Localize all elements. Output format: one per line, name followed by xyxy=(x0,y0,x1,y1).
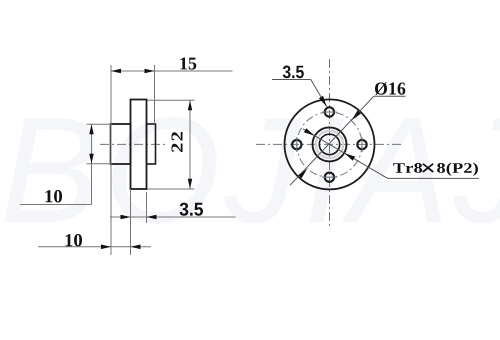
Ø16 arrow upper (outside bolt circle pointing inward) xyxy=(352,110,361,120)
text 3.5 (circle view) xyxy=(283,66,304,79)
bolt hole top xyxy=(325,107,334,116)
hole tick top xyxy=(322,111,337,113)
bolt hole right xyxy=(357,140,366,149)
center thread shading ring xyxy=(316,131,343,158)
arrow 3.5 right (outside pointing left) xyxy=(147,215,157,220)
Ø16 label underline xyxy=(374,95,406,97)
Tr8x8 leader diagonal xyxy=(303,129,388,179)
outer circle Ø22 xyxy=(285,99,375,189)
bolt circle Ø16 (dash-dot) xyxy=(297,112,362,177)
dimension line 22 xyxy=(189,100,191,189)
text 10 (left) xyxy=(46,190,63,203)
arrow 10 down xyxy=(89,154,93,164)
vertical centerline xyxy=(329,59,331,228)
extension line left (x=111, shared 15/10) xyxy=(110,65,112,255)
hole tick bottom xyxy=(322,176,337,178)
arrow bottom10 right (outside, pointing left) xyxy=(131,245,141,250)
arrow 3.5 left (outside pointing right) xyxy=(121,215,131,220)
hole tick right xyxy=(361,137,363,152)
3.5 leader (top hole) xyxy=(272,79,311,81)
3.5 leader arrow xyxy=(319,96,327,107)
hole tick left xyxy=(296,137,298,152)
extension lines for 22 xyxy=(148,99,195,101)
text 3.5 (left view) xyxy=(180,203,203,216)
extension line for bottom 10 (x=130.5) xyxy=(130,189,132,255)
Tr8x8 arrow SE (pointing NW onto thread circle) xyxy=(344,153,355,161)
text Ø16 xyxy=(375,82,405,95)
bolt hole bottom xyxy=(325,173,334,182)
center bore circle xyxy=(319,134,339,154)
Ø16 dimension diagonal line xyxy=(290,96,374,185)
extension lines for Ø10 (left) xyxy=(87,123,111,125)
leader for 10 text xyxy=(20,204,92,206)
boss rectangle (right lip) xyxy=(147,124,156,164)
bolt hole left xyxy=(292,140,301,149)
Ø16 arrow lower xyxy=(298,169,307,179)
flange rectangle (Ø22 disc) xyxy=(131,100,147,190)
dimension line 15 xyxy=(111,70,233,72)
arrow 10 up xyxy=(89,124,93,134)
body rectangle (cylinder Ø10) xyxy=(111,124,131,164)
arrow 15 left xyxy=(111,69,121,74)
arrow bottom10 left (outside, pointing right) xyxy=(101,245,111,250)
arrow 22 down xyxy=(188,179,192,189)
extension line for 3.5 right (x=146.5) xyxy=(146,192,148,223)
horizontal centerline xyxy=(256,143,401,145)
centerline (left view) xyxy=(100,143,166,145)
dimension line 3.5 xyxy=(110,216,236,218)
text Tr8x8(P2) xyxy=(393,163,478,176)
extension line right for 15 (x=155) xyxy=(154,65,156,124)
Tr8x8 arrow NW (pointing SE onto thread circle) xyxy=(304,128,315,136)
Tr8x8 label underline xyxy=(388,177,479,179)
text 10 (bottom) xyxy=(66,234,82,246)
dimension line bottom 10 xyxy=(38,246,151,248)
center thread major circle Ø8 xyxy=(313,127,347,161)
arrow 22 up xyxy=(188,100,192,110)
text 15 xyxy=(180,58,196,70)
dimension line Ø10 vertical xyxy=(91,124,93,204)
text 22 (rotated) xyxy=(172,132,183,152)
arrow 15 right xyxy=(145,69,155,74)
